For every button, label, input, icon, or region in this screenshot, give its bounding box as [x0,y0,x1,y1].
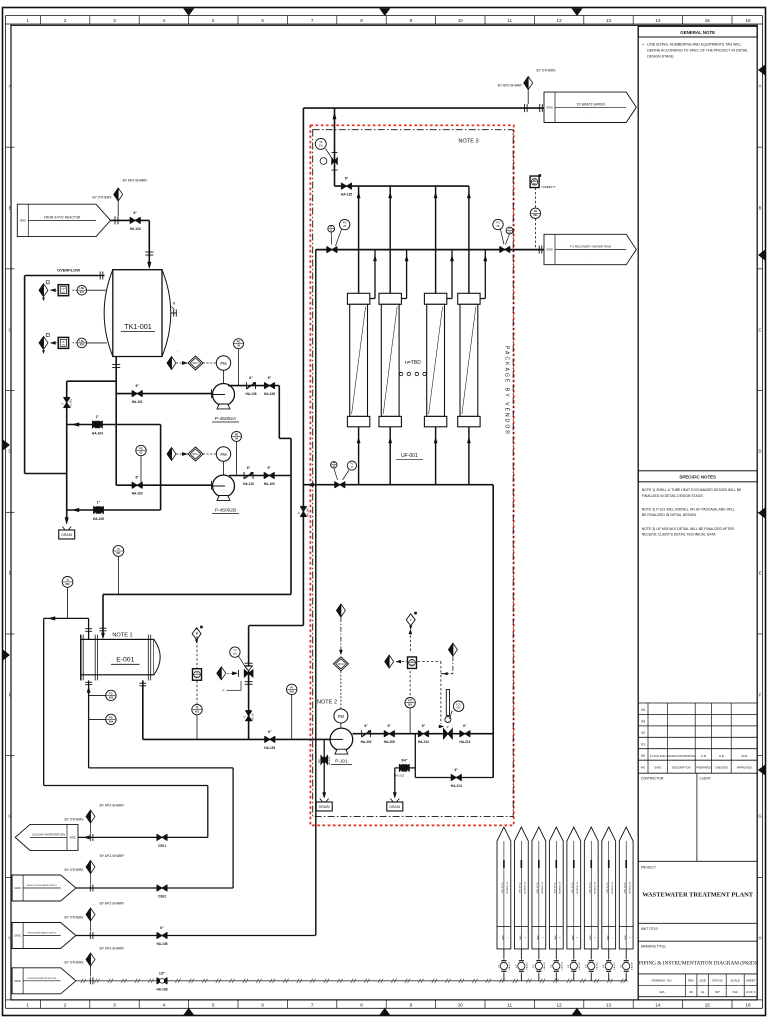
svg-text:6": 6" [249,376,253,380]
utility arrow 4 [549,827,563,949]
wire UF module 4 backwash riser [468,186,470,293]
svg-text:BY VENDOR: BY VENDOR [540,882,542,894]
wire drain discharge side [414,734,416,778]
wire UF module 1 permeate tap [370,298,375,300]
svg-text:BY APZ-SHARIF: BY APZ-SHARIF [100,902,125,906]
svg-text:HA-108: HA-108 [264,392,275,396]
wire UF module 2 permeate tap [401,298,406,300]
pump P-101 interlock diamond [336,604,345,617]
svg-text:4: 4 [558,937,560,938]
svg-text:1/2": 1/2" [533,964,535,968]
svg-text:HA-117: HA-117 [251,712,255,721]
wire UF module 1 feed drop [358,427,360,485]
svg-text:14: 14 [655,18,661,23]
svg-text:F: F [9,693,12,698]
svg-text:FROM DEMIN WATER SUPPLY: FROM DEMIN WATER SUPPLY [28,932,57,935]
svg-text:NOTE 3: NOTE 3 [458,138,478,144]
general note box [637,26,639,1000]
svg-text:SHEET: SHEET [746,979,756,983]
svg-text:6": 6" [247,466,251,470]
wire UF module 4 feed drop [468,427,470,485]
interlock diamond to TV [217,667,226,680]
svg-text:1/2": 1/2" [603,964,605,968]
wire drain collector tap [67,380,117,382]
svg-text:LSH: LSH [79,287,84,290]
utility arrow 7 air valve [608,949,610,960]
butterfly valve permeate west [326,246,328,253]
wire drain cross connection [160,425,162,511]
svg-text:PREPARED: PREPARED [696,766,711,770]
utility arrow 2 air valve [520,949,522,960]
UF module 3 [424,293,446,304]
svg-text:TO UF UNIT: TO UF UNIT [606,882,608,894]
svg-text:BY APZ-SHARIF: BY APZ-SHARIF [498,84,523,88]
svg-text:BY VENDOR: BY VENDOR [523,882,525,894]
wire process feed line to package [143,738,331,740]
svg-text:GRID: GRID [536,935,538,940]
svg-text:LINE SIZING, NUMBERING AND EQU: LINE SIZING, NUMBERING AND EQUIPMENTS TA… [647,43,741,47]
drain box discharge side [390,799,393,803]
svg-text:BY VENDOR: BY VENDOR [506,882,508,894]
svg-text:HA-164: HA-164 [561,962,564,970]
svg-text:5: 5 [212,18,215,23]
svg-text:SPECIFIC NOTES: SPECIFIC NOTES [679,475,716,480]
svg-text:WASTEWATER TREATMENT PLANT: WASTEWATER TREATMENT PLANT [642,892,753,899]
svg-text:6": 6" [388,724,392,728]
scope diamond instrument air [89,977,91,984]
valve HA-213 [459,730,461,737]
svg-text:6": 6" [422,724,426,728]
svg-text:N/A: N/A [733,990,739,994]
svg-text:001: 001 [319,144,324,147]
svg-text:1": 1" [96,415,100,419]
svg-text:6": 6" [268,376,272,380]
wire demin water line [76,935,315,937]
wire UF module 2 feed drop [389,427,391,485]
svg-text:BY OTHERS: BY OTHERS [65,868,85,872]
valve HA-160 on riser [300,505,307,507]
svg-text:PM: PM [220,452,227,457]
svg-text:HA-168: HA-168 [630,962,633,970]
svg-text:CS01: CS01 [158,844,166,848]
svg-text:HA-163: HA-163 [543,962,546,970]
svg-text:2": 2" [61,402,65,404]
utility arrow 3 air valve [538,949,540,960]
pump B interlock diamond [182,452,187,455]
svg-text:A: A [759,84,762,89]
valve HA-154 [264,736,266,743]
analyser AIT-001 turbidity [530,176,539,188]
svg-text:A: A [9,84,12,89]
grid row letters [6,146,15,148]
butterfly valve permeate east [499,246,501,253]
svg-text:GRID: GRID [553,935,555,940]
svg-text:TO UF UNIT: TO UF UNIT [536,882,538,894]
svg-text:GRID: GRID [588,935,590,940]
svg-text:HA-134: HA-134 [130,227,141,231]
svg-text:H: H [758,936,761,941]
svg-text:6": 6" [135,384,139,388]
svg-text:3: 3 [541,937,543,938]
svg-text:BY OTHERS: BY OTHERS [65,916,85,920]
svg-text:001: 001 [80,291,85,294]
svg-text:P: P [222,689,224,693]
temperature element TE-001 [192,704,202,714]
valve HA-134 [129,217,131,224]
svg-text:PACKAGE BY VENDOR: PACKAGE BY VENDOR [504,346,510,434]
svg-text:1: 1 [26,1003,29,1008]
wire HA-105 drain line [67,509,161,511]
svg-text:TI: TI [66,579,69,582]
temperature transmitter TT-001 [193,669,202,681]
svg-text:LAH: LAH [61,288,66,291]
svg-text:HA-106: HA-106 [246,392,257,396]
pump B discharge PG [232,431,242,441]
svg-text:HA-101: HA-101 [132,400,143,404]
instrument PG-004 exchanger [89,718,106,720]
svg-text:4: 4 [163,1003,166,1008]
svg-text:DRAIN: DRAIN [390,805,401,809]
wire recirculation return line [249,625,304,627]
svg-text:GRID: GRID [546,248,553,252]
svg-text:BY OTHERS: BY OTHERS [65,961,85,965]
utility arrow 6 air valve [590,949,592,960]
level instrument loop high LSH LAH [87,289,106,291]
svg-text:002: 002 [65,583,70,586]
svg-text:REV: REV [688,979,694,983]
svg-text:CONTRACTOR:: CONTRACTOR: [641,777,664,781]
svg-text:GRID: GRID [606,935,608,940]
svg-text:27.AUG.2023: 27.AUG.2023 [650,754,666,758]
stream inlet FROM S-PVC REACTOR [17,204,110,236]
stream outlet TO WASTE WATER [544,92,636,122]
valve HA-212 [417,730,419,737]
svg-text:PIPING & INSTRUMENTATION DIAGR: PIPING & INSTRUMENTATION DIAGRAM (P&ID) [639,960,757,967]
svg-text:BY OTHERS: BY OTHERS [93,196,113,200]
pump A MCC [203,362,216,364]
svg-text:BY APZ-SHARIF: BY APZ-SHARIF [100,804,125,808]
valve HA-108 [263,382,265,389]
scope diamond on S-PVC line [114,216,116,224]
wire permeate header [316,249,544,251]
valve HA-101 [131,390,133,397]
pump P-45002A [213,384,235,406]
wire feed riser east [492,485,494,778]
svg-text:6": 6" [463,724,467,728]
utility arrow 3 [532,827,546,949]
svg-text:GRID: GRID [623,935,625,940]
svg-text:001: 001 [457,707,462,710]
svg-text:HA-202: HA-202 [361,740,372,744]
svg-text:DESCRIPTION: DESCRIPTION [672,766,690,770]
svg-text:SIZE: SIZE [699,979,705,983]
svg-text:PROJECT:: PROJECT: [641,866,657,870]
alarm diamond AE [385,655,394,668]
svg-text:13: 13 [606,18,612,23]
wire combined discharge down [290,438,292,594]
wire UF module 1 backwash riser [358,186,360,293]
svg-text:10: 10 [458,1003,464,1008]
svg-text:M: M [173,302,176,306]
wire waste header to pentagon [303,107,544,109]
svg-text:TO UF UNIT: TO UF UNIT [623,882,625,894]
svg-text:HA-168: HA-168 [157,987,168,991]
svg-text:HA-166: HA-166 [595,962,598,970]
svg-text:F: F [759,693,762,698]
wire drain collector [66,381,68,521]
svg-text:001: 001 [408,704,413,707]
svg-text:001: 001 [533,214,538,217]
valve CS01 [156,834,158,841]
wire permeate backwash drop [315,250,317,936]
svg-text:6: 6 [261,18,264,23]
svg-text:GRID: GRID [69,836,76,840]
svg-text:1/2": 1/2" [551,964,553,968]
svg-text:NOTE 3) UF MODULE DETAIL WILL: NOTE 3) UF MODULE DETAIL WILL BE FINALIZ… [642,527,735,531]
svg-text:PM: PM [220,361,227,366]
interlock diamond level [448,643,457,656]
title block bottom table [638,973,757,975]
svg-text:LSL: LSL [80,340,85,343]
pump P-45002B [213,475,235,497]
svg-text:4: 4 [163,18,166,23]
valve CS02 [156,885,158,892]
wire pump B suction [116,484,212,486]
svg-text:P-45002B: P-45002B [215,508,236,514]
svg-text:3: 3 [113,1003,116,1008]
svg-text:DEFINE ACCORDING TO SPEC OF TH: DEFINE ACCORDING TO SPEC OF THE PROJECT … [647,49,748,53]
svg-text:6: 6 [593,937,595,938]
utility arrow 4 air valve [555,949,557,960]
pump A motor PM [223,370,225,383]
level instrument loop low LSL LAL [87,342,107,344]
svg-text:12: 12 [557,1003,563,1008]
fold centering marks [184,9,194,16]
wire UF module 4 permeate tap [480,298,485,300]
contractor client box [696,773,698,861]
svg-text:B: B [9,206,12,211]
scope diamond CWS [89,885,91,892]
svg-text:NOTE 1: NOTE 1 [112,632,132,638]
svg-text:BY APZ-SHARIF: BY APZ-SHARIF [100,947,125,951]
flow transmitter FIT-001 [405,698,415,708]
wire package vent riser [334,108,336,186]
svg-text:D: D [8,449,11,454]
svg-text:PG: PG [235,433,239,436]
air release valve assembly [332,152,338,154]
wire waste riser [302,108,304,625]
wire S-PVC drop to tank [148,220,150,266]
svg-text:1/2": 1/2" [516,964,518,968]
utility arrow 2 [514,827,528,949]
svg-text:001: 001 [233,653,238,656]
check valve HA-202 [361,730,363,737]
svg-text:03: 03 [641,720,645,724]
svg-text:COOLING WATER RETURN: COOLING WATER RETURN [32,832,65,836]
svg-text:FINALIZED IN DETAIL DESIGN STA: FINALIZED IN DETAIL DESIGN STAGE. [642,494,704,498]
svg-text:HA-105: HA-105 [93,517,104,521]
svg-text:HA-214: HA-214 [451,784,462,788]
svg-text:8: 8 [360,18,363,23]
wire drain P-101 [323,739,325,795]
svg-text:FROM COOLING WATER SUPPLY: FROM COOLING WATER SUPPLY [27,884,58,887]
svg-text:GRID: GRID [14,886,21,890]
valve HA-103 on collector [63,396,70,398]
svg-text:9: 9 [410,18,413,23]
instrument TI-002 on CWR [62,577,73,588]
svg-text:001: 001 [116,552,121,555]
valve HA-168 instrument air [156,977,158,984]
utility arrow 6 [584,827,598,949]
pump P-101 [330,728,353,751]
svg-text:PG: PG [139,447,143,450]
svg-text:6": 6" [345,177,349,181]
svg-text:4": 4" [242,715,246,717]
svg-text:16: 16 [745,1003,751,1008]
valve HA-215 drain [399,764,404,771]
svg-text:CS02: CS02 [158,895,166,899]
svg-text:02: 02 [641,731,645,735]
scope diamond demin [89,932,91,939]
svg-text:ISSUED FOR PROPOSAL: ISSUED FOR PROPOSAL [666,755,696,758]
utility arrow 5 air valve [573,949,575,960]
svg-text:2 OF 3: 2 OF 3 [746,990,756,994]
svg-text:T: T [196,632,198,636]
svg-text:2: 2 [64,1003,67,1008]
svg-text:HA-162: HA-162 [526,962,529,970]
svg-text:DRAIN: DRAIN [319,805,330,809]
svg-text:BY VENDOR: BY VENDOR [610,882,612,894]
svg-text:HA-135: HA-135 [341,193,352,197]
pump B MCC [203,453,216,455]
svg-text:E: E [9,571,12,576]
svg-text:2": 2" [447,725,450,729]
svg-text:GRID: GRID [546,105,553,109]
svg-text:5: 5 [576,937,578,938]
stream inlet FROM INSTRUMENT AIR SUPPLIER [12,968,76,994]
svg-text:3/4": 3/4" [401,758,408,762]
svg-text:1/2": 1/2" [159,971,166,975]
feed header instruments [331,462,337,468]
svg-text:04: 04 [641,708,645,712]
svg-text:3: 3 [113,18,116,23]
valve on feed header [334,481,336,488]
wire UF module 3 permeate tap [447,298,452,300]
svg-text:TO UF UNIT: TO UF UNIT [553,882,555,894]
svg-text:HA-213: HA-213 [459,740,470,744]
svg-text:APPROVED: APPROVED [737,766,752,770]
svg-text:BY VENDOR: BY VENDOR [558,882,560,894]
svg-text:RECEIVE CLIENT'S DETAIL TECHNI: RECEIVE CLIENT'S DETAIL TECHNICAL DATA. [642,533,717,537]
svg-text:13: 13 [606,1003,612,1008]
svg-text:BY VENDOR: BY VENDOR [628,882,630,894]
valve HA-104 [92,421,97,428]
svg-text:11: 11 [507,1003,512,1008]
svg-text:P-45002A: P-45002A [215,416,237,422]
svg-text:DESIGN STAGE.: DESIGN STAGE. [647,55,674,59]
svg-text:D: D [758,449,761,454]
svg-text:BE FINALIZED IN DETAIL DESIGN.: BE FINALIZED IN DETAIL DESIGN. [642,513,697,517]
svg-text:HA-215: HA-215 [394,774,405,778]
svg-text:HA-154: HA-154 [264,746,275,750]
svg-text:TO UF UNIT: TO UF UNIT [501,882,503,894]
pump P-101 motor PM [340,723,342,728]
wire pump A discharge [228,385,279,387]
pump B motor PM [223,461,225,475]
svg-text:1": 1" [97,501,101,505]
valve HA-117 vertical [245,710,252,712]
UF module 4 [458,293,480,304]
svg-text:DRAWING NO.: DRAWING NO. [652,979,673,983]
svg-text:MCC: MCC [192,452,198,456]
svg-text:FROM S-PVC REACTOR: FROM S-PVC REACTOR [44,215,81,219]
svg-text:1: 1 [506,937,508,938]
svg-text:NOTE 2: NOTE 2 [317,700,337,706]
svg-text:GRID: GRID [571,935,573,940]
svg-text:H.E: H.E [719,754,724,758]
wire HA-104 drain line [67,424,161,426]
utility arrow 5 [567,827,581,949]
svg-text:UNIT TITLE:: UNIT TITLE: [641,927,659,931]
svg-text:SCALE: SCALE [730,979,740,983]
valve HA-156 [156,932,158,939]
signal line to FCV [418,661,441,663]
svg-text:TO UF UNIT: TO UF UNIT [518,882,520,894]
svg-text:PI: PI [291,686,294,689]
svg-text:7: 7 [311,18,314,23]
svg-text:TO RECOVERY WATER TANK: TO RECOVERY WATER TANK [570,245,612,249]
valve HA-205 [383,730,385,737]
wire S-PVC feed line [111,219,150,221]
svg-text:GRID: GRID [501,935,503,940]
svg-text:TK1-001: TK1-001 [124,322,152,331]
svg-text:6: 6 [261,1003,264,1008]
svg-text:GRID: GRID [518,935,520,940]
svg-text:P-101: P-101 [335,759,348,764]
svg-text:00: 00 [641,754,645,758]
stream outlet TO RECOVERY WATER TANK [544,234,636,264]
check valve HA-106 [246,382,248,389]
svg-text:15: 15 [705,1003,711,1008]
svg-text:UF-001: UF-001 [401,453,418,459]
control valve FCV-001 [446,690,449,716]
svg-text:HA-103: HA-103 [69,399,73,408]
wire instrument air header [76,980,628,982]
scope diamond waste line [524,104,526,112]
instrument TI-001 [113,546,124,557]
wire UF module 3 backwash riser [435,186,437,293]
svg-text:.: . [590,113,591,117]
wire cooling water return from exchanger [88,618,90,639]
wire discharge to exchanger [103,593,291,595]
svg-text:003: 003 [109,696,114,699]
svg-text:HA-161: HA-161 [508,962,511,970]
svg-text:6": 6" [267,466,271,470]
svg-text:GRID: GRID [14,979,21,983]
wire UF module 3 feed drop [435,427,437,485]
svg-text:BY APZ-SHARIF: BY APZ-SHARIF [100,854,125,858]
svg-text:NOTE 2) P-101 WILL INSTALL ON: NOTE 2) P-101 WILL INSTALL ON UF PACKAGE… [642,507,735,511]
svg-text:AE: AE [534,210,538,213]
valve HA-105 [94,507,99,514]
svg-text:B: B [759,206,762,211]
svg-text:A1: A1 [701,990,705,994]
utility arrow 1 air valve [503,949,505,960]
suction B gauge [136,445,146,455]
svg-text:HA-153: HA-153 [327,756,331,765]
svg-text:7: 7 [311,1003,314,1008]
svg-text:9: 9 [410,1003,413,1008]
